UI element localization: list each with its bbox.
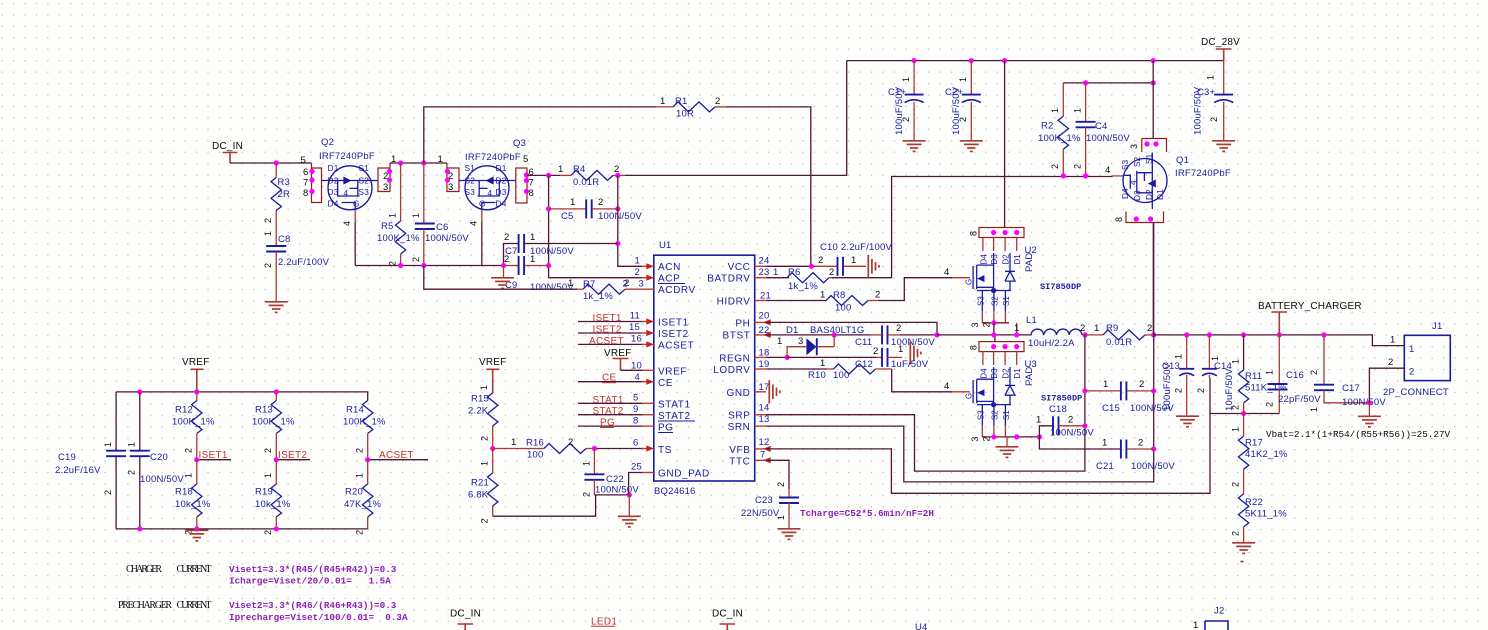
- capacitor C23: [741, 482, 799, 529]
- svg-text:C10 2.2uF/100V: C10 2.2uF/100V: [820, 242, 892, 253]
- resistor R5: [377, 163, 420, 266]
- ground below C23: [778, 529, 801, 540]
- resistor R3: [263, 163, 290, 223]
- Q1 bottom pin box (pins 5-8): [1126, 212, 1164, 223]
- svg-text:R22: R22: [1245, 497, 1263, 508]
- svg-text:5K11_1%: 5K11_1%: [1245, 509, 1287, 520]
- svg-text:7: 7: [760, 450, 765, 461]
- wire U3 source row to C18 elbow: [1009, 436, 1040, 438]
- wire HIDRV to U2 gate: [878, 278, 952, 301]
- svg-text:2: 2: [818, 255, 823, 266]
- net label ISET2 (U1): [578, 325, 642, 336]
- svg-text:2: 2: [958, 117, 968, 122]
- Q3 left pin box (pins 1-3): [447, 163, 459, 192]
- svg-text:2: 2: [103, 490, 113, 495]
- inductor L1 10uH/2.2A: [1014, 315, 1085, 349]
- svg-text:ISET1: ISET1: [658, 318, 689, 329]
- svg-text:2: 2: [1196, 388, 1206, 393]
- wire R21 bottom to C22 ground node: [493, 495, 596, 516]
- svg-text:2: 2: [504, 232, 509, 243]
- Q3 right pin box (pins 5-8): [516, 168, 527, 203]
- svg-text:23: 23: [759, 267, 770, 278]
- node C6 top / riser: [421, 160, 426, 165]
- net label STAT1: [578, 395, 642, 406]
- svg-text:PG: PG: [600, 418, 615, 429]
- svg-text:2: 2: [1231, 405, 1241, 410]
- svg-text:100uF/50V: 100uF/50V: [894, 86, 905, 135]
- svg-text:C15: C15: [1102, 403, 1120, 414]
- wire U3 drain feed from SW row: [994, 335, 996, 342]
- capacitor C21 100N/50V: [1039, 437, 1175, 472]
- resistor R15 2.2K: [468, 393, 498, 449]
- svg-text:1k_1%: 1k_1%: [583, 291, 613, 302]
- svg-text:CHARGER: CHARGER: [126, 564, 162, 575]
- U1 right pin stubs: [755, 266, 766, 460]
- svg-text:100: 100: [527, 450, 543, 461]
- svg-text:2: 2: [184, 448, 194, 453]
- svg-text:1: 1: [820, 358, 825, 369]
- svg-text:C11: C11: [855, 337, 872, 348]
- ground below C17 node: [1368, 403, 1370, 416]
- svg-text:1: 1: [1036, 415, 1041, 426]
- svg-text:1: 1: [1231, 427, 1241, 432]
- svg-text:6: 6: [529, 167, 534, 178]
- svg-text:2: 2: [263, 448, 273, 453]
- svg-text:2: 2: [263, 530, 273, 535]
- svg-text:TTC: TTC: [729, 457, 750, 468]
- svg-text:CURRENT: CURRENT: [177, 564, 212, 575]
- svg-text:D4: D4: [1120, 188, 1130, 199]
- wire R4 to rail riser: [625, 61, 847, 176]
- port BATTERY_CHARGER: [1258, 301, 1362, 335]
- capacitor C14 10uF/50V: [1196, 335, 1235, 411]
- svg-text:R11: R11: [1245, 371, 1262, 382]
- wire U2 source to SW node: [993, 323, 995, 335]
- svg-text:3: 3: [1129, 144, 1139, 149]
- svg-text:2: 2: [480, 518, 490, 523]
- svg-text:C22: C22: [606, 474, 624, 485]
- resistor R13 100K_1%: [252, 392, 295, 460]
- svg-text:1: 1: [1103, 379, 1108, 390]
- svg-text:VREF: VREF: [182, 357, 209, 368]
- svg-text:11: 11: [630, 311, 640, 322]
- svg-text:100K_1%: 100K_1%: [343, 417, 386, 428]
- capacitor C7: [504, 232, 618, 266]
- port DC_IN (bottom left): [450, 609, 481, 630]
- svg-text:4: 4: [469, 221, 479, 226]
- svg-text:C17: C17: [1342, 383, 1360, 394]
- svg-text:2: 2: [1231, 482, 1241, 487]
- svg-text:2: 2: [263, 263, 273, 268]
- svg-text:2: 2: [1139, 379, 1144, 390]
- wire ACN column: [618, 175, 642, 266]
- resistor R8 100: [766, 290, 880, 314]
- ground right of C10 (rotated): [868, 255, 879, 278]
- svg-text:D2: D2: [1002, 254, 1011, 265]
- capacitor C2 100uF/50V: [945, 61, 983, 152]
- svg-text:L1: L1: [1026, 315, 1037, 326]
- svg-text:1: 1: [1390, 335, 1395, 346]
- resistor R14 100K_1%: [343, 401, 386, 460]
- svg-text:R21: R21: [471, 478, 489, 489]
- svg-text:2: 2: [568, 437, 573, 448]
- svg-text:C18: C18: [1049, 404, 1067, 415]
- svg-text:6: 6: [303, 167, 308, 178]
- svg-text:ACDRV: ACDRV: [658, 285, 696, 296]
- svg-text:2: 2: [1174, 388, 1184, 393]
- svg-text:10uH/2.2A: 10uH/2.2A: [1028, 338, 1075, 349]
- svg-text:SRN: SRN: [728, 422, 751, 433]
- resistor R17 41K2_1%: [1231, 414, 1288, 494]
- svg-text:R10: R10: [808, 370, 826, 381]
- svg-text:1: 1: [820, 290, 825, 301]
- connector J2: [1193, 606, 1228, 630]
- svg-text:S1: S1: [359, 163, 370, 173]
- svg-text:12: 12: [759, 437, 770, 448]
- svg-text:ISET1: ISET1: [199, 450, 228, 461]
- svg-text:2.2uF/100V: 2.2uF/100V: [278, 257, 330, 268]
- ground below C8: [265, 302, 288, 313]
- resistor R20 47K_1%: [344, 460, 381, 535]
- svg-text:DC_IN: DC_IN: [450, 609, 481, 620]
- svg-text:DC_28V: DC_28V: [1201, 37, 1240, 48]
- svg-text:C16: C16: [1286, 370, 1304, 381]
- svg-text:Icharge=Viset/20/0.01= 1.5A: Icharge=Viset/20/0.01= 1.5A: [229, 576, 391, 587]
- svg-text:2: 2: [355, 448, 365, 453]
- svg-text:1: 1: [263, 473, 273, 478]
- svg-text:100K_1%: 100K_1%: [252, 417, 295, 428]
- U1 pin numbers: [623, 256, 779, 473]
- svg-text:R5: R5: [381, 221, 394, 232]
- svg-text:8: 8: [529, 188, 534, 199]
- svg-text:VREF: VREF: [479, 357, 506, 368]
- svg-text:20: 20: [759, 311, 770, 322]
- resistor R9 0.01R: [1085, 323, 1154, 348]
- svg-text:1: 1: [582, 461, 592, 466]
- wire Q2 gate pin 4: [354, 210, 356, 222]
- wire DC_IN to Q2 drain: [230, 162, 312, 164]
- svg-text:STAT1: STAT1: [658, 400, 691, 411]
- resistor R12 100K_1%: [172, 392, 215, 460]
- svg-text:R2: R2: [1041, 121, 1054, 132]
- svg-text:1: 1: [479, 385, 489, 390]
- svg-text:1: 1: [901, 77, 911, 82]
- svg-text:2.2K: 2.2K: [468, 406, 489, 417]
- svg-text:R12: R12: [175, 405, 193, 416]
- svg-text:R4: R4: [573, 164, 586, 175]
- svg-text:Viset2=3.3*(R46/(R46+R43))=0.3: Viset2=3.3*(R46/(R46+R43))=0.3: [229, 600, 397, 611]
- svg-text:ISET1: ISET1: [593, 313, 622, 324]
- svg-text:2: 2: [127, 470, 137, 475]
- svg-text:100uF/50V: 100uF/50V: [1162, 362, 1173, 411]
- svg-text:25: 25: [631, 462, 642, 473]
- svg-text:S1: S1: [1144, 153, 1154, 164]
- wire PH to SW node: [766, 322, 937, 335]
- wire R1 to VCC column: [726, 107, 811, 266]
- svg-text:CURRENT: CURRENT: [177, 600, 212, 611]
- Q2 left pin box (pins 5-8): [312, 163, 322, 203]
- svg-text:C20: C20: [150, 452, 168, 463]
- svg-text:3: 3: [798, 336, 803, 347]
- svg-text:14: 14: [759, 403, 770, 414]
- port DC_IN (bottom middle): [712, 609, 743, 630]
- wire U3 gate stub: [952, 391, 970, 393]
- capacitor C6: [411, 163, 469, 266]
- svg-text:4: 4: [488, 188, 493, 198]
- svg-text:2: 2: [1231, 531, 1241, 536]
- port DC_28V: [1201, 37, 1240, 61]
- svg-text:G: G: [479, 199, 486, 209]
- wire U2 drain feed from rail: [1004, 61, 1006, 228]
- svg-text:3: 3: [448, 182, 453, 193]
- U2 top pin box: [979, 228, 1024, 238]
- net label ISET2 (block): [274, 450, 310, 462]
- resistor R16 100: [493, 437, 595, 461]
- svg-text:D3: D3: [328, 187, 339, 197]
- svg-text:Q3: Q3: [513, 138, 526, 149]
- svg-text:7: 7: [529, 178, 534, 189]
- net label LED1: [591, 617, 617, 628]
- svg-text:2R: 2R: [278, 189, 291, 200]
- svg-text:ACP: ACP: [658, 274, 680, 285]
- svg-text:BAS40LT1G: BAS40LT1G: [810, 325, 864, 336]
- U1 pin arrows: [646, 263, 654, 269]
- Q3 body circle and glyph (mirrored): [465, 166, 509, 210]
- wire VCC row: [766, 265, 815, 267]
- svg-text:C6: C6: [436, 222, 449, 233]
- svg-text:2: 2: [623, 279, 628, 290]
- svg-text:100N/50V: 100N/50V: [140, 474, 184, 485]
- svg-text:5: 5: [633, 393, 638, 404]
- svg-text:S3: S3: [977, 296, 986, 306]
- svg-text:100: 100: [833, 370, 849, 381]
- svg-text:D4: D4: [496, 199, 507, 209]
- resistor R11 511K_1%: [1231, 335, 1288, 414]
- power port VREF (left block): [182, 357, 209, 392]
- svg-text:2: 2: [598, 197, 603, 208]
- svg-text:J2: J2: [1214, 606, 1224, 617]
- transistor Q3 IRF7240PbF: [438, 138, 534, 266]
- svg-text:1: 1: [635, 256, 640, 267]
- wire LODRV row: [766, 368, 826, 370]
- svg-text:2: 2: [1388, 357, 1393, 368]
- capacitor C5: [549, 197, 643, 222]
- svg-text:4: 4: [344, 188, 349, 198]
- svg-text:2: 2: [582, 492, 592, 497]
- svg-text:100K_1%: 100K_1%: [172, 417, 215, 428]
- svg-text:1: 1: [263, 231, 273, 236]
- svg-text:1: 1: [1050, 108, 1060, 113]
- Q1 gate pin 4: [1113, 175, 1124, 177]
- svg-text:G: G: [965, 279, 974, 285]
- svg-text:1: 1: [530, 254, 535, 265]
- wire SW row to L1: [937, 334, 1031, 336]
- svg-text:C21: C21: [1096, 461, 1114, 472]
- svg-text:8: 8: [303, 188, 308, 199]
- svg-text:2: 2: [715, 96, 720, 107]
- svg-text:1: 1: [480, 461, 490, 466]
- svg-text:15: 15: [629, 322, 640, 333]
- svg-text:S3: S3: [465, 187, 476, 197]
- svg-text:ACN: ACN: [658, 262, 681, 273]
- svg-text:DC_IN: DC_IN: [212, 141, 243, 152]
- svg-text:D1: D1: [496, 163, 507, 173]
- svg-text:2P_CONNECT: 2P_CONNECT: [1383, 387, 1449, 398]
- svg-text:3: 3: [383, 182, 388, 193]
- power port VREF (U1): [604, 348, 642, 370]
- svg-text:24: 24: [759, 256, 770, 267]
- svg-text:C23: C23: [755, 495, 773, 506]
- svg-text:10uF/50V: 10uF/50V: [1224, 368, 1235, 411]
- capacitor C17 100N/50V: [1309, 335, 1386, 412]
- wire battery row: [1154, 335, 1405, 346]
- node R15/R21/R16 junction: [490, 446, 495, 451]
- svg-text:100N/50V: 100N/50V: [598, 211, 642, 222]
- svg-text:2: 2: [901, 117, 911, 122]
- wire VFB node row: [1210, 413, 1279, 415]
- wire SRN route: [766, 223, 1154, 482]
- svg-text:4: 4: [944, 267, 949, 278]
- svg-text:ISET2: ISET2: [278, 450, 307, 461]
- svg-text:G: G: [353, 199, 360, 209]
- svg-text:100N/50V: 100N/50V: [1342, 397, 1386, 408]
- svg-text:PG: PG: [658, 423, 674, 434]
- capacitor C3 100uF/50V: [1193, 61, 1236, 152]
- svg-text:VCC: VCC: [728, 262, 751, 273]
- svg-text:C5: C5: [561, 211, 574, 222]
- Q2 right pin box (pins 1-3): [378, 163, 390, 192]
- svg-text:2: 2: [1068, 415, 1073, 426]
- svg-text:16: 16: [631, 333, 642, 344]
- svg-text:1: 1: [511, 437, 516, 448]
- capacitor C20 100N/50V: [127, 392, 185, 529]
- wire BATDRV to Q1 gate row: [832, 177, 1113, 278]
- capacitor C8: [263, 222, 330, 302]
- wire Q3 drain output row: [527, 174, 560, 176]
- svg-text:ISET2: ISET2: [593, 325, 622, 336]
- wire R2/C4 top row: [1063, 82, 1153, 84]
- svg-text:R16: R16: [526, 438, 544, 449]
- svg-text:1: 1: [1102, 438, 1107, 449]
- resistor R6 1k_1%: [766, 267, 834, 292]
- svg-text:2: 2: [1138, 438, 1143, 449]
- svg-text:10R: 10R: [676, 109, 694, 120]
- capacitor C12: [787, 344, 929, 370]
- wire ACDRV row from C6 node: [424, 266, 577, 290]
- svg-text:0.01R: 0.01R: [1106, 337, 1132, 348]
- svg-text:1: 1: [660, 96, 665, 107]
- svg-text:1: 1: [777, 336, 782, 347]
- capacitor C10 2.2uF/100V: [815, 242, 892, 276]
- svg-text:8: 8: [633, 416, 638, 427]
- svg-text:IRF7240PbF: IRF7240PbF: [319, 151, 375, 162]
- resistor R1 10R: [656, 96, 726, 120]
- capacitor C9: [504, 254, 575, 293]
- svg-text:1: 1: [127, 442, 137, 447]
- U2 internal mosfet glyph: [973, 253, 1015, 293]
- wire riser to R1 row: [424, 107, 656, 163]
- svg-text:IRF7240PbF: IRF7240PbF: [1175, 168, 1231, 179]
- svg-text:2: 2: [480, 436, 490, 441]
- resistor R2 100K_1%: [1038, 83, 1081, 175]
- svg-text:D1: D1: [786, 325, 799, 336]
- svg-text:4: 4: [944, 381, 949, 392]
- svg-text:D2: D2: [328, 176, 339, 186]
- svg-text:1: 1: [851, 255, 856, 266]
- svg-text:ACSET: ACSET: [589, 336, 624, 347]
- svg-text:CE: CE: [658, 378, 673, 389]
- svg-text:R15: R15: [471, 394, 489, 405]
- Q1 body circle and glyph (rotated): [1123, 159, 1167, 203]
- svg-text:100uF/50V: 100uF/50V: [1193, 86, 1204, 135]
- svg-text:GND: GND: [726, 388, 750, 399]
- svg-text:R6: R6: [788, 267, 801, 278]
- wire Q2/Q3 pin4 bottom rail: [355, 265, 503, 267]
- svg-text:BTST: BTST: [723, 331, 751, 342]
- wire top rail: [847, 60, 1224, 62]
- wire ACP column: [549, 175, 643, 277]
- capacitor C15 100N/50V: [1085, 379, 1174, 414]
- svg-text:D1: D1: [328, 163, 339, 173]
- svg-text:100K_1%: 100K_1%: [377, 233, 420, 244]
- capacitor C1 100uF/50V: [888, 61, 926, 152]
- svg-text:S2: S2: [1132, 156, 1142, 167]
- wire GND_PAD elbow: [629, 473, 643, 495]
- wire VFB route: [766, 378, 1210, 494]
- ground below U3 source: [1006, 437, 1008, 446]
- resistor R22 5K11_1%: [1231, 494, 1288, 542]
- svg-text:S1: S1: [465, 163, 476, 173]
- svg-text:BQ24616: BQ24616: [654, 486, 696, 497]
- svg-text:STAT2: STAT2: [593, 406, 624, 417]
- node R5 top: [398, 160, 403, 165]
- svg-text:Q1: Q1: [1176, 155, 1189, 166]
- svg-text:R14: R14: [346, 405, 364, 416]
- svg-text:VREF: VREF: [658, 367, 687, 378]
- svg-text:2: 2: [896, 323, 901, 334]
- ground below C22 node: [628, 495, 630, 516]
- svg-text:U4: U4: [915, 622, 928, 630]
- svg-text:100N/50V: 100N/50V: [1086, 133, 1130, 144]
- svg-text:4: 4: [1105, 165, 1110, 176]
- svg-text:Tcharge=C52*5.6min/nF=2H: Tcharge=C52*5.6min/nF=2H: [800, 508, 934, 519]
- svg-text:10k_1%: 10k_1%: [175, 499, 211, 510]
- svg-text:DC_IN: DC_IN: [712, 609, 743, 620]
- svg-text:2: 2: [635, 267, 640, 278]
- svg-text:1: 1: [958, 77, 968, 82]
- svg-text:2: 2: [1209, 117, 1219, 122]
- svg-text:47K_1%: 47K_1%: [344, 499, 381, 510]
- svg-text:D2: D2: [496, 176, 507, 186]
- svg-text:8: 8: [969, 231, 979, 236]
- svg-text:1: 1: [1409, 344, 1414, 355]
- svg-text:2.2uF/16V: 2.2uF/16V: [55, 465, 101, 476]
- svg-text:PH: PH: [735, 319, 750, 330]
- capacitor C18 100N/50V: [1036, 404, 1094, 439]
- svg-text:2: 2: [1265, 402, 1275, 407]
- svg-text:BATTERY_CHARGER: BATTERY_CHARGER: [1258, 301, 1362, 312]
- svg-text:D3: D3: [1132, 190, 1142, 201]
- svg-text:1: 1: [1193, 620, 1198, 630]
- svg-text:D4: D4: [979, 254, 988, 265]
- svg-text:2: 2: [873, 346, 878, 357]
- svg-text:1: 1: [530, 232, 535, 243]
- svg-text:1: 1: [1014, 323, 1019, 334]
- svg-text:13: 13: [759, 414, 770, 425]
- svg-text:100N/50V: 100N/50V: [595, 485, 639, 496]
- wire LODRV to U3 gate: [892, 369, 952, 392]
- svg-text:41K2_1%: 41K2_1%: [1245, 449, 1288, 460]
